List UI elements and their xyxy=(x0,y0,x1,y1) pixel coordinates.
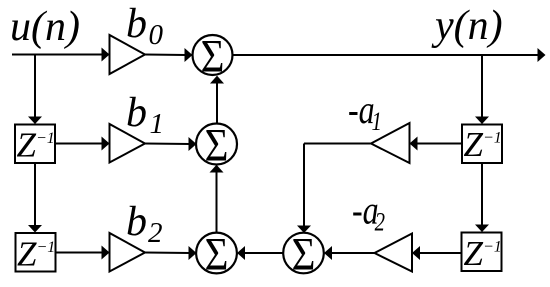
triangle gain b2 xyxy=(110,233,146,272)
svg-text:u(n): u(n) xyxy=(10,4,80,50)
summation S2 circle xyxy=(196,124,237,165)
wire a1 feedback vertical down to sum4 xyxy=(303,144,305,227)
delay box Z2 right xyxy=(462,233,502,272)
arrowhead left into sum4 from a2 xyxy=(324,246,332,260)
svg-text:Σ: Σ xyxy=(201,30,225,82)
delay box Z1 left xyxy=(15,125,55,164)
delay box Z2 left xyxy=(16,233,56,272)
arrowhead up into sum1 xyxy=(210,76,224,84)
arrowhead into b0 xyxy=(102,48,110,62)
triangle gain a2 xyxy=(375,234,413,272)
wire sum1 to output y(n) xyxy=(233,54,538,56)
wire sum4 to sum3 xyxy=(245,252,284,254)
summation S3 circle xyxy=(196,233,237,274)
arrowhead output tip xyxy=(538,48,546,62)
wire Z2 to b2 xyxy=(56,252,103,254)
arrowhead into b1 xyxy=(102,137,110,151)
wire sum3 up to sum2 xyxy=(216,172,218,233)
arrowhead up into sum2 xyxy=(210,165,224,173)
arrowhead into sum1 from b0 xyxy=(185,48,193,62)
triangle gain b0 xyxy=(110,35,146,74)
arrowhead down into left Z2 xyxy=(28,225,42,233)
wire b2 apex to sum3 xyxy=(145,252,190,255)
arrowhead into sum3 from b2 xyxy=(189,246,197,260)
wire input junction drop to Z1 xyxy=(34,55,36,118)
triangle gain b1 xyxy=(110,124,146,163)
wire Z1 down to Z2 xyxy=(34,163,36,226)
svg-text:y(n): y(n) xyxy=(431,3,503,49)
arrowhead left into a2 triangle xyxy=(412,246,420,260)
wire right Z1 down to right Z2 xyxy=(481,163,483,225)
triangle gain a1 xyxy=(371,123,410,163)
arrowhead down into right Z1 xyxy=(475,117,489,125)
summation S1 circle xyxy=(193,35,233,75)
wire right Z1 to a1 triangle xyxy=(417,143,462,145)
delay box Z1 right xyxy=(462,125,502,164)
arrowhead down into left Z1 xyxy=(28,117,42,125)
arrowhead left into sum3 from sum4 xyxy=(237,246,245,260)
arrowhead into b2 xyxy=(102,246,110,260)
wire sum2 up to sum1 xyxy=(216,83,218,124)
arrowhead into sum2 from b1 xyxy=(189,137,197,151)
svg-text:Σ: Σ xyxy=(205,119,229,171)
arrowhead down into right Z2 xyxy=(475,225,489,233)
summation S4 circle xyxy=(283,233,324,274)
arrowhead left into a1 triangle xyxy=(410,137,418,151)
wire y(n) junction drop to right Z1 xyxy=(481,55,483,117)
svg-text:Σ: Σ xyxy=(205,228,229,280)
arrowhead down into sum4 xyxy=(297,226,311,234)
wire Z1 to b1 xyxy=(55,143,102,145)
wire right Z2 to a2 triangle xyxy=(420,252,462,254)
wire b0 apex to sum1 xyxy=(145,54,186,57)
wire input u(n) horizontal xyxy=(12,54,102,56)
wire b1 apex to sum2 xyxy=(145,143,190,146)
svg-text:Σ: Σ xyxy=(292,228,316,280)
wire a2 apex to sum4 xyxy=(332,252,375,254)
wire a1 feedback horizontal xyxy=(304,143,371,145)
